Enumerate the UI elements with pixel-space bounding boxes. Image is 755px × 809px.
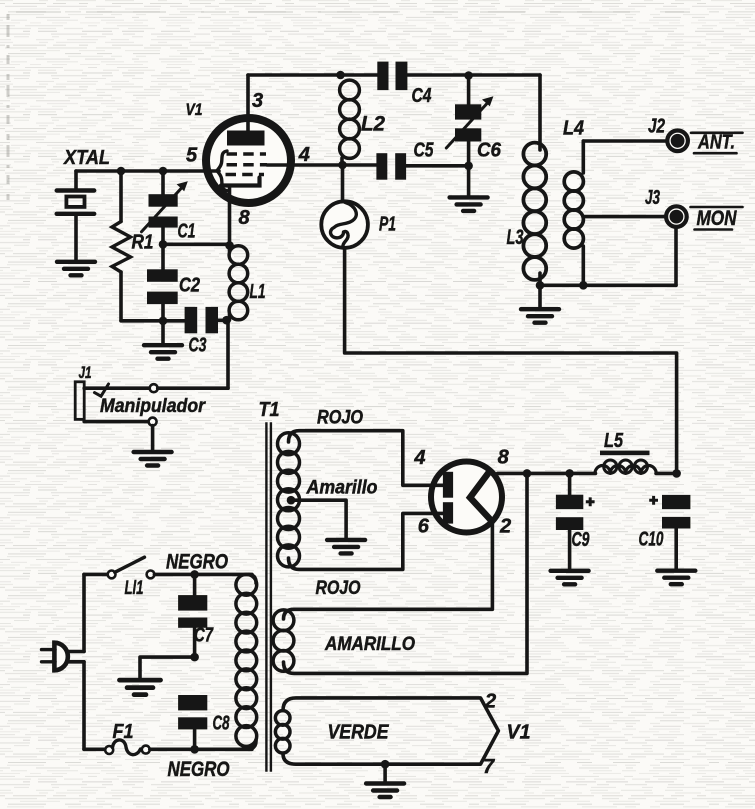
plug prongs <box>42 648 56 651</box>
node dot filament riser <box>523 469 532 478</box>
ground (C2 branch) <box>161 321 165 343</box>
terminal circle (key) <box>150 384 158 392</box>
svg-text:L3: L3 <box>507 226 524 249</box>
svg-text:8: 8 <box>498 447 510 469</box>
wire C4 to L3 corner <box>407 73 540 77</box>
svg-text:L4: L4 <box>563 118 584 140</box>
inductor L1 <box>228 245 232 251</box>
wire L4 top to J2 <box>583 139 666 143</box>
tube V1 grid bracket pin 5 <box>217 151 227 191</box>
wire J1 sleeve <box>84 420 148 424</box>
wire L4 tap to J3 <box>584 215 665 219</box>
terminal circle (sleeve) <box>149 418 157 426</box>
wire J3 down <box>674 227 678 285</box>
svg-text:2: 2 <box>484 691 496 713</box>
ground (C10) <box>657 571 695 585</box>
svg-text:L2: L2 <box>361 113 385 136</box>
svg-text:C5: C5 <box>414 140 435 162</box>
wire top to L3 <box>538 75 542 150</box>
node dot XTAL/C1 <box>159 167 168 176</box>
ground (VERDE) <box>366 784 404 798</box>
ground (C9) <box>551 571 589 585</box>
node dot C9 <box>565 469 574 478</box>
svg-text:Ll1: Ll1 <box>125 578 144 599</box>
svg-text:V1: V1 <box>507 722 531 744</box>
node dot C3/L1/J1 <box>222 316 231 325</box>
wire pin 8 B+ <box>498 472 596 476</box>
wire P1 down and across to C10 <box>345 248 677 474</box>
svg-text:MON: MON <box>697 207 738 230</box>
node dot XTAL/R1 <box>117 167 126 176</box>
wire C1 to pin8 node <box>163 243 230 247</box>
jack J3 <box>666 206 687 227</box>
svg-text:C10: C10 <box>639 529 664 551</box>
node dot C6 top <box>464 71 473 80</box>
wire primary bottom into coil <box>249 740 256 749</box>
wire terminal to L1 branch <box>158 386 228 390</box>
svg-text:C2: C2 <box>179 275 200 297</box>
ground (line filter) <box>119 680 160 695</box>
resistor R1 <box>119 171 123 222</box>
wire J1 tip to terminal <box>84 386 150 390</box>
trimmer capacitor C1 <box>161 171 165 194</box>
svg-text:C3: C3 <box>189 335 207 357</box>
svg-text:P1: P1 <box>379 214 396 236</box>
lamp P1 <box>341 165 345 202</box>
ground (tap) <box>327 540 365 554</box>
svg-text:R1: R1 <box>132 232 154 254</box>
wire pin 4 (grid2 out) <box>267 163 376 167</box>
MON label lines <box>691 206 743 209</box>
inductor L4 <box>581 141 585 173</box>
rectifier anode bars <box>443 472 453 498</box>
scan edge artifacts left <box>7 14 10 200</box>
svg-text:J1: J1 <box>79 363 92 382</box>
wire ROJO bottom to pin 6 <box>289 513 445 569</box>
capacitor C2 <box>161 244 165 269</box>
wire pin 3 up <box>246 75 250 132</box>
T1 filament winding AMARILLO <box>273 610 294 631</box>
svg-text:C7: C7 <box>194 625 214 647</box>
svg-text:2: 2 <box>499 516 511 538</box>
wire C5 to C6 bottom <box>406 164 469 168</box>
svg-text:Amarillo: Amarillo <box>306 478 378 499</box>
svg-text:C6: C6 <box>477 140 502 162</box>
svg-text:V1: V1 <box>186 101 203 119</box>
svg-text:VERDE: VERDE <box>328 722 390 744</box>
T1 primary winding <box>236 574 257 595</box>
choke L5 <box>600 451 650 456</box>
svg-text:C8: C8 <box>213 713 231 735</box>
plus sign C10 <box>649 496 658 505</box>
tube V1 grid (dashed) <box>227 152 267 156</box>
svg-text:C4: C4 <box>412 85 432 107</box>
T1 HV secondary winding <box>278 433 300 455</box>
inductor L2 <box>340 80 360 100</box>
wire L1 down to keyjack <box>226 320 230 388</box>
ground (crystal) <box>57 262 95 276</box>
node dot C7/C8 <box>190 653 199 662</box>
svg-text:T1: T1 <box>259 399 280 421</box>
svg-text:ANT.: ANT. <box>697 132 735 154</box>
jack J2 <box>667 131 688 152</box>
variable capacitor C6 <box>467 76 471 105</box>
svg-text:J2: J2 <box>648 116 665 138</box>
ground (C6) <box>467 166 471 195</box>
wire bottom of R1/C2/C3 <box>121 319 185 323</box>
svg-text:4: 4 <box>298 144 310 166</box>
wire bottom right net <box>540 283 676 287</box>
svg-text:ROJO: ROJO <box>317 408 363 429</box>
node dot L2 top <box>336 71 345 80</box>
node dot L2/P1/pin4 <box>338 161 347 170</box>
node dot VERDE ground <box>381 760 390 769</box>
capacitor C3 <box>185 307 198 333</box>
svg-text:ROJO: ROJO <box>316 578 361 599</box>
svg-text:XTAL: XTAL <box>63 147 110 169</box>
svg-text:7: 7 <box>483 756 495 778</box>
wire Amarillo center tap <box>287 496 296 505</box>
svg-text:4: 4 <box>413 447 425 469</box>
capacitor C8 <box>178 695 207 710</box>
jack spring contact <box>95 384 109 396</box>
T1 filament winding VERDE + V1 pins 2/7 <box>283 698 498 764</box>
jack J1 body <box>75 382 84 420</box>
wire ROJO top to pin 4 <box>289 431 445 486</box>
svg-text:Manipulador: Manipulador <box>100 396 206 417</box>
node dot C8 bottom <box>190 745 199 754</box>
ground (L3) <box>538 285 542 307</box>
capacitor C10 <box>662 495 690 509</box>
inductor L3 <box>523 143 546 166</box>
wire pin3 top run <box>248 73 379 77</box>
svg-text:C9: C9 <box>572 529 591 551</box>
tube V1 plate <box>227 131 265 146</box>
node dot C10 <box>672 469 681 478</box>
AC plug <box>82 574 86 651</box>
wire XTAL node to pin 5 <box>76 169 219 173</box>
rectifier tube envelope <box>431 462 502 533</box>
svg-text:6: 6 <box>418 516 430 538</box>
tube V1 envelope <box>206 118 291 203</box>
svg-text:3: 3 <box>252 90 263 112</box>
ANT. label lines <box>691 132 743 135</box>
switch Ll1 <box>84 573 108 577</box>
svg-text:NEGRO: NEGRO <box>166 551 228 574</box>
tube V1 cathode <box>221 178 260 186</box>
capacitor C5 <box>376 153 387 180</box>
wire primary top into coil <box>249 574 256 583</box>
node dot L3 bottom <box>536 281 545 290</box>
rectifier cathode chevron <box>470 472 492 521</box>
svg-text:L5: L5 <box>604 430 624 452</box>
plus sign C9 <box>586 497 595 506</box>
svg-text:8: 8 <box>238 207 250 229</box>
transformer T1 core <box>265 422 267 772</box>
svg-text:J3: J3 <box>645 187 660 209</box>
capacitor C7 <box>193 574 197 595</box>
wire to chassis ground <box>140 657 195 678</box>
crystal XTAL <box>74 171 78 190</box>
wire AMARILLO bottom riser <box>284 473 528 673</box>
ground (J1) <box>134 452 172 466</box>
svg-text:AMARILLO: AMARILLO <box>324 634 415 655</box>
svg-text:NEGRO: NEGRO <box>168 758 230 781</box>
wire pin 2 to AMARILLO top <box>284 521 493 619</box>
node dot C7 top <box>190 570 199 579</box>
capacitor C4 <box>377 62 388 91</box>
svg-text:F1: F1 <box>113 721 134 743</box>
fuse F1 <box>84 747 105 751</box>
wire pin 8 down <box>228 186 232 245</box>
capacitor C9 <box>568 473 572 494</box>
svg-text:5: 5 <box>186 145 198 167</box>
wire L5 to C10 <box>656 472 677 476</box>
svg-text:C1: C1 <box>178 221 196 243</box>
svg-text:L1: L1 <box>250 281 266 303</box>
